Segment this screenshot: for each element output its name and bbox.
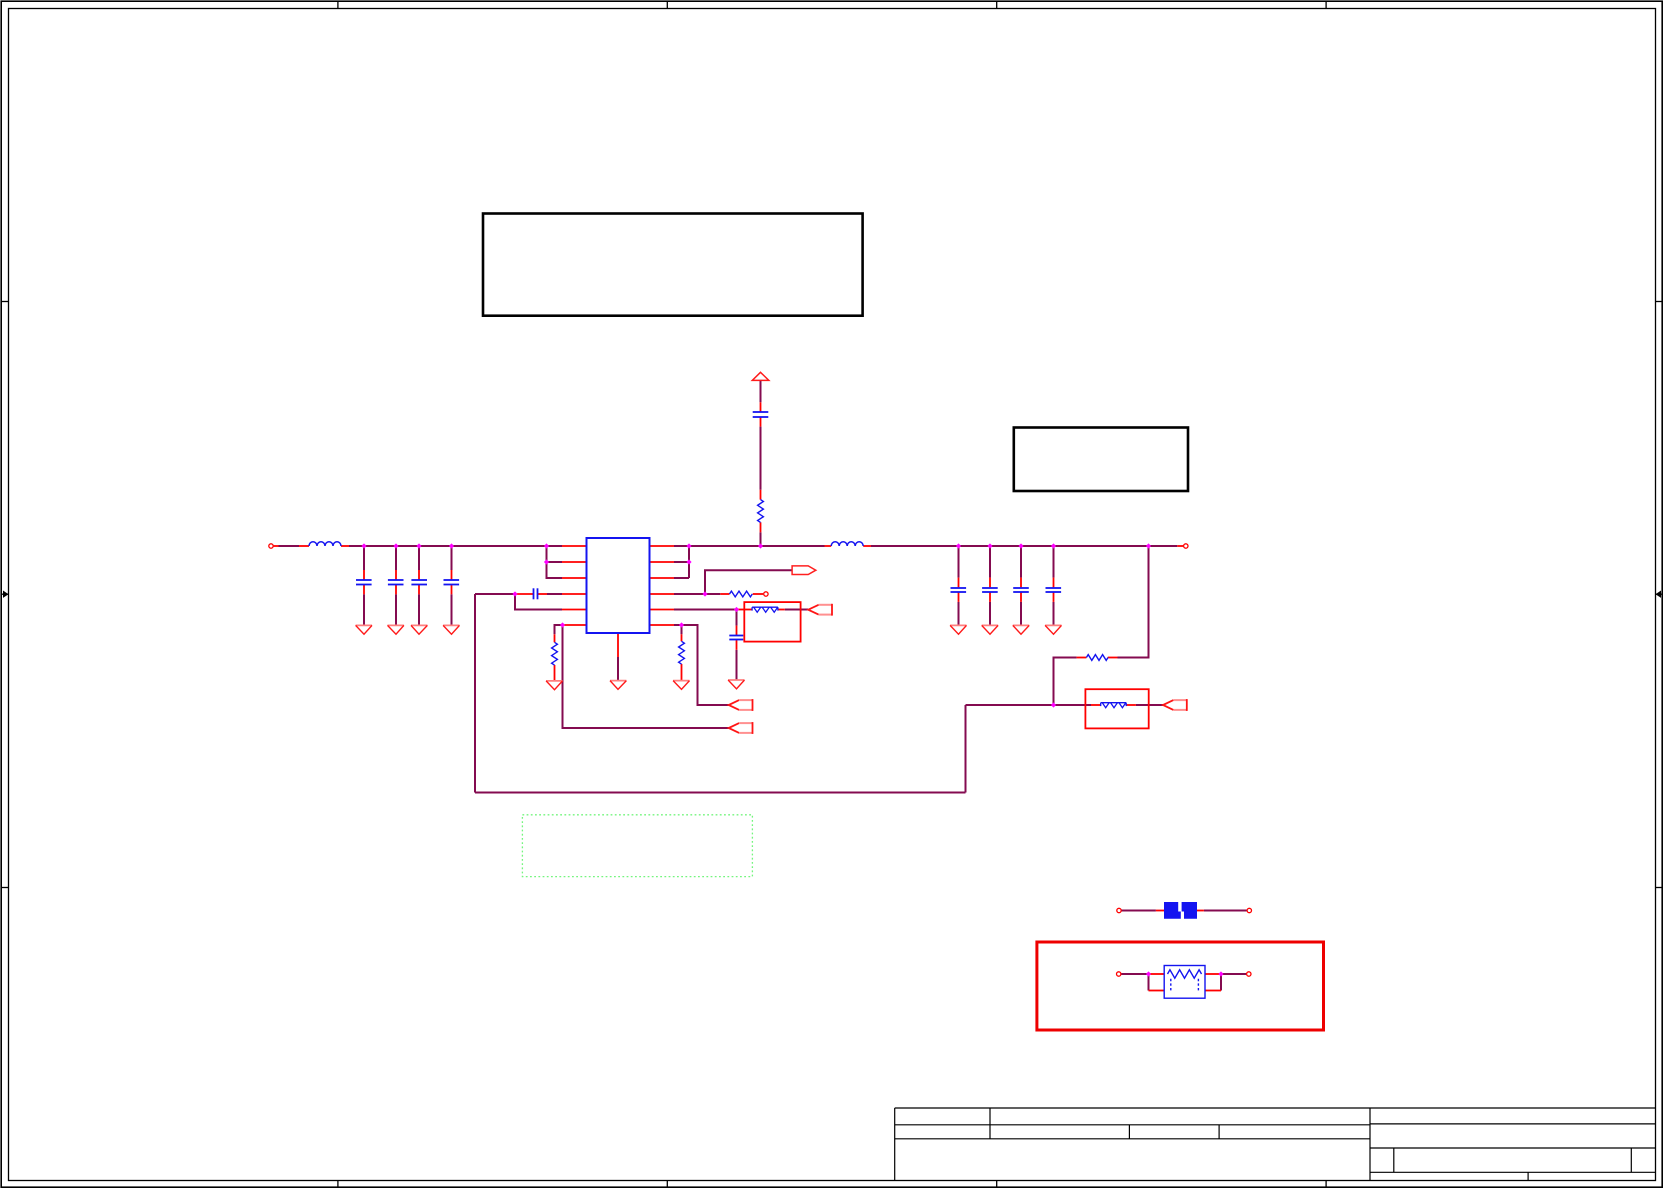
resistor network RN1 body <box>1164 966 1205 999</box>
ferrite network FB1 symbol <box>752 607 778 612</box>
ground (C3) <box>411 625 427 634</box>
wire bus after L1 to U1 pin1 <box>349 545 562 547</box>
wire power symbol to C9 <box>760 380 762 402</box>
resistor R5 (vertical above bus) <box>758 500 764 523</box>
junction dots RN1 <box>1146 971 1224 976</box>
wire node C to C10 <box>736 610 738 626</box>
capacitor C9 <box>753 412 769 417</box>
resistor R2 <box>552 642 558 665</box>
pin stubs C9 <box>760 402 762 426</box>
wire C6-C8,C11 to ground <box>959 602 1054 626</box>
port flag SYNC (left-pointing) <box>729 722 753 734</box>
wire C1-C4 to ground <box>364 594 452 625</box>
note box 1 (black rectangle) <box>483 214 863 316</box>
wire F1 terminal to left of fuse <box>1122 910 1156 912</box>
title block <box>895 1108 1656 1181</box>
wire fuse to right terminal <box>1204 910 1247 912</box>
resistor R1 (horizontal) <box>730 591 753 597</box>
pin stubs R5 <box>760 490 762 533</box>
wire feedback to FB2 network <box>966 704 1092 706</box>
pin stubs R3 <box>681 634 683 680</box>
wire bus drops to C6-C8,C11 <box>959 546 1054 578</box>
pin stub VIN terminal <box>274 545 279 547</box>
ground (C11) <box>1045 625 1061 634</box>
terminal F1 right <box>1247 908 1251 912</box>
capacitor C11 <box>1046 588 1062 592</box>
pin stubs C5 <box>516 593 533 595</box>
wire feedback loop left vertical <box>474 594 476 793</box>
terminal NC (open circle, R1) <box>764 592 768 596</box>
wire U1 pin6 right to MODE flag <box>674 625 729 705</box>
pin stubs F1 fuse <box>1156 910 1204 912</box>
wire node A to C5 <box>475 593 562 595</box>
pin stubs L2 <box>825 545 872 547</box>
wire U1 pin4 right to node B <box>674 593 720 595</box>
pin stubs RN1 <box>1149 974 1222 991</box>
wire U1 pin6 left to R2 <box>555 625 563 634</box>
wire VIN bus left segment <box>279 545 300 547</box>
note box 2 (black rectangle) <box>1014 428 1188 492</box>
inductor L1 <box>309 542 341 546</box>
capacitor C1 <box>356 580 372 585</box>
ground (U1) <box>610 681 626 690</box>
inductor L2 <box>831 542 863 546</box>
wire node B to PGOOD flag <box>705 570 792 594</box>
capacitor C6 <box>951 588 967 592</box>
pin stub VOUT terminal <box>1177 545 1183 547</box>
ferrite network FB2 symbol <box>1101 703 1127 708</box>
wire R5 to bus node <box>760 532 762 546</box>
ground (C2) <box>388 625 404 634</box>
pin stub U1 bottom <box>617 633 619 657</box>
wire U1 left pins 1-3 tie <box>547 546 563 578</box>
terminal F1 left <box>1117 908 1121 912</box>
pin stubs R2 <box>554 634 556 680</box>
power symbol VIN (up arrow) <box>752 372 769 380</box>
wire bus drops to C1-C4 <box>364 546 452 570</box>
wire U1 pin6 left to SYNC flag <box>563 625 729 728</box>
junction dots on bus <box>361 543 1151 548</box>
terminal VIN (open circle) <box>269 544 273 548</box>
wire R4 to node D <box>1054 658 1077 706</box>
red highlight box around FB2 <box>1085 689 1148 728</box>
wire FB1 to EN flag <box>785 609 808 611</box>
port flag MODE (left-pointing) <box>729 699 753 711</box>
wire U1 pin5 right to FB1 <box>674 609 737 611</box>
pin stubs C6-C8,C11 <box>959 578 1054 602</box>
ground (C7) <box>982 625 998 634</box>
terminal RN1 left <box>1117 972 1121 976</box>
resistor network RN1 hidden pins (dashed) <box>1171 979 1199 991</box>
pin stubs FB2 <box>1091 704 1136 706</box>
wire feedback loop bottom <box>475 792 966 794</box>
capacitor C3 <box>411 580 427 585</box>
port flag PGOOD (right-pointing) <box>792 566 816 575</box>
wire RN1 left terminal to node E <box>1121 974 1148 991</box>
capacitor C2 <box>388 580 404 585</box>
ground (C6) <box>950 625 966 634</box>
wire U1 pin6 right to R3 <box>681 625 683 634</box>
ground (C8) <box>1013 625 1029 634</box>
pin stubs L1 <box>299 545 349 547</box>
resistor R4 (horizontal) <box>1086 655 1108 661</box>
terminal RN1 right <box>1247 972 1251 976</box>
pin stubs R1 <box>720 593 763 595</box>
ground (R3) <box>673 681 689 690</box>
ground (R2) <box>546 681 562 690</box>
wire C9 to R5 <box>760 427 762 490</box>
red highlight box around RN1 <box>1037 942 1324 1030</box>
wire C10 to ground <box>736 650 738 680</box>
wire U1 right pins 1-3 tie <box>674 546 689 578</box>
pin stubs U1 right <box>650 546 675 625</box>
resistor R3 <box>679 641 685 664</box>
wire node A to U1 pin5 <box>515 594 562 610</box>
pin stubs U1 left <box>538 546 587 625</box>
ground (C10) <box>728 680 744 689</box>
red highlight box around FB1 <box>744 602 800 642</box>
capacitor C10 <box>729 636 743 640</box>
wire U1 bottom pin to ground <box>617 657 619 680</box>
capacitor C8 <box>1013 588 1029 592</box>
ground (C1) <box>356 625 372 634</box>
pin stubs C1-C4 <box>364 570 452 594</box>
capacitor C4 <box>444 580 460 585</box>
wire feedback loop right vertical <box>965 705 967 793</box>
port flag VSENSE (left-pointing) <box>1163 699 1187 711</box>
fuse F1 (blue blocks) <box>1164 902 1197 919</box>
wire FB2 to VSENSE flag <box>1136 704 1163 706</box>
op-amp U1 (IC body) <box>587 538 650 633</box>
pin stubs C10 <box>736 626 738 650</box>
pin stubs FB1 <box>737 609 785 611</box>
pin stubs R4 <box>1077 657 1118 659</box>
ground (C4) <box>443 625 459 634</box>
terminal VOUT (open circle) <box>1184 544 1188 548</box>
wire bus U1 right to L2 <box>674 545 825 547</box>
wire RN1 right node to terminal <box>1221 974 1246 991</box>
wire bus after L2 to VOUT terminal <box>871 545 1177 547</box>
wire VOUT node down to R4 <box>1118 546 1149 658</box>
junction dots U1 side nets <box>512 559 1056 707</box>
capacitor C7 <box>982 588 998 592</box>
DNP note box (green dashed) <box>522 815 752 877</box>
capacitor C5 (series) <box>534 588 538 599</box>
port flag EN (left-pointing) <box>808 604 832 616</box>
